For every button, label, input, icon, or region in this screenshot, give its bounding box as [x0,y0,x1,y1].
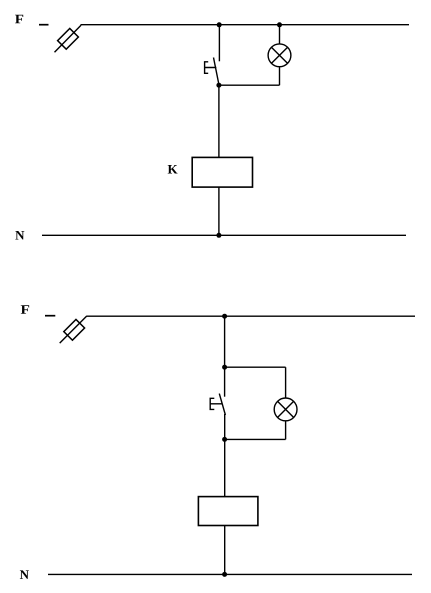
switch S1 blade (push-button NO) [214,58,219,85]
wire switch lower contact (circuit 2) [224,414,226,439]
lamp H1 cross [271,47,287,63]
wire coil to neutral (circuit 2) [224,526,226,575]
lamp H2 circle [274,398,297,421]
lamp H2 cross [278,401,294,417]
node junction lamp branch (circuit 1) [277,22,282,27]
wire to coil K (circuit 1) [218,85,220,157]
fuse F2 body [64,319,85,340]
fuse F1 body [58,28,79,49]
node junction below switch (circuit 1) [216,83,221,88]
node branch point upper (circuit 2) [222,365,227,370]
isolator dash (circuit 2) [45,315,55,317]
svg-text:F: F [20,302,29,317]
wire lamp branch upper (circuit 1) [279,25,281,45]
fuse F1 lead wire (diagonal) [55,25,82,52]
wire neutral rail N (circuit 2) [48,573,412,575]
node junction switch branch (circuit 1) [217,22,222,27]
wire lamp branch right upper (circuit 2) [285,367,287,398]
wire switch upper contact (circuit 1) [218,25,220,62]
svg-text:N: N [20,567,30,582]
wire phase rail L (circuit 1) [81,24,410,26]
wire lamp-to-switch connector (circuit 1) [219,84,280,86]
switch S1 push-button actuator [205,62,217,74]
node junction on phase (circuit 2) [222,314,227,319]
switch S2 blade (push-button NO) [219,394,225,415]
wire phase rail L (circuit 2) [86,315,415,317]
svg-text:N: N [15,228,25,243]
wire lamp branch right lower (circuit 2) [285,421,287,440]
svg-text:K: K [167,162,178,177]
wire coil K to neutral (circuit 1) [218,187,220,235]
wire to coil (circuit 2) [224,439,226,496]
wire neutral rail N (circuit 1) [42,234,406,236]
relay coil body (circuit 2) [198,497,258,526]
node junction on neutral (circuit 2) [222,572,227,577]
node branch point lower (circuit 2) [222,437,227,442]
isolator dash (circuit 1) [39,24,49,26]
node junction on neutral (circuit 1) [216,233,221,238]
wire lamp branch bottom (circuit 2) [225,438,286,440]
svg-text:F: F [15,11,24,26]
switch S2 push-button actuator [210,398,222,409]
wire lamp branch lower (circuit 1) [279,67,281,86]
fuse F2 lead wire (diagonal) [60,316,87,343]
relay coil K body [192,157,252,187]
lamp H1 circle [268,44,291,67]
wire phase to branch point (circuit 2) [224,316,226,367]
wire lamp branch top (circuit 2) [225,366,286,368]
wire switch upper contact (circuit 2) [224,367,226,397]
